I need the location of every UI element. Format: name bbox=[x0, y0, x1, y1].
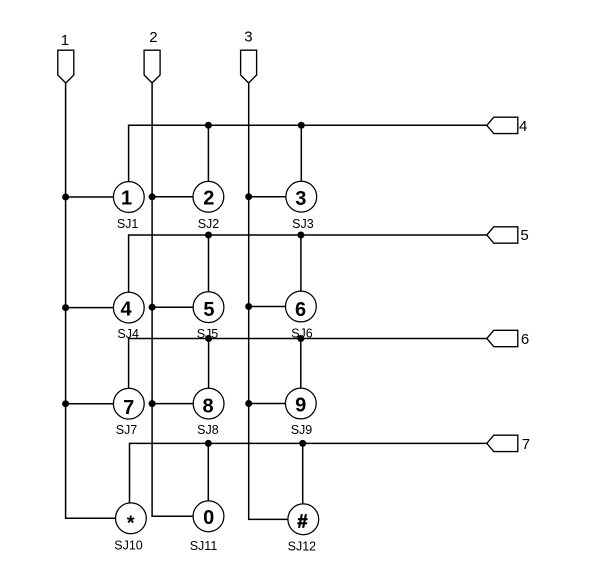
svg-text:0: 0 bbox=[203, 507, 214, 529]
svg-text:3: 3 bbox=[295, 188, 306, 210]
svg-text:SJ6: SJ6 bbox=[291, 326, 313, 340]
svg-text:SJ11: SJ11 bbox=[190, 539, 218, 553]
svg-text:6: 6 bbox=[521, 331, 529, 348]
svg-text:SJ8: SJ8 bbox=[197, 423, 219, 437]
svg-text:SJ2: SJ2 bbox=[198, 217, 220, 231]
svg-text:SJ12: SJ12 bbox=[288, 539, 317, 553]
svg-text:SJ9: SJ9 bbox=[291, 423, 313, 437]
svg-text:#: # bbox=[297, 511, 307, 531]
svg-text:SJ5: SJ5 bbox=[197, 327, 219, 341]
svg-text:4: 4 bbox=[519, 118, 527, 135]
svg-text:7: 7 bbox=[123, 397, 134, 419]
svg-text:1: 1 bbox=[121, 187, 132, 209]
svg-text:1: 1 bbox=[61, 32, 69, 49]
svg-text:SJ4: SJ4 bbox=[117, 327, 139, 341]
svg-text:4: 4 bbox=[121, 299, 133, 321]
svg-text:*: * bbox=[127, 513, 135, 535]
svg-text:8: 8 bbox=[203, 395, 214, 417]
svg-text:SJ3: SJ3 bbox=[292, 217, 314, 231]
svg-text:7: 7 bbox=[522, 436, 530, 453]
svg-text:5: 5 bbox=[203, 299, 214, 321]
svg-text:SJ1: SJ1 bbox=[117, 217, 139, 231]
svg-text:2: 2 bbox=[203, 188, 214, 210]
svg-text:2: 2 bbox=[149, 29, 157, 46]
svg-text:3: 3 bbox=[244, 29, 252, 46]
svg-text:6: 6 bbox=[295, 299, 306, 321]
svg-text:SJ7: SJ7 bbox=[116, 423, 138, 437]
svg-text:SJ10: SJ10 bbox=[114, 538, 143, 552]
svg-text:9: 9 bbox=[295, 395, 306, 417]
svg-text:5: 5 bbox=[520, 227, 528, 244]
